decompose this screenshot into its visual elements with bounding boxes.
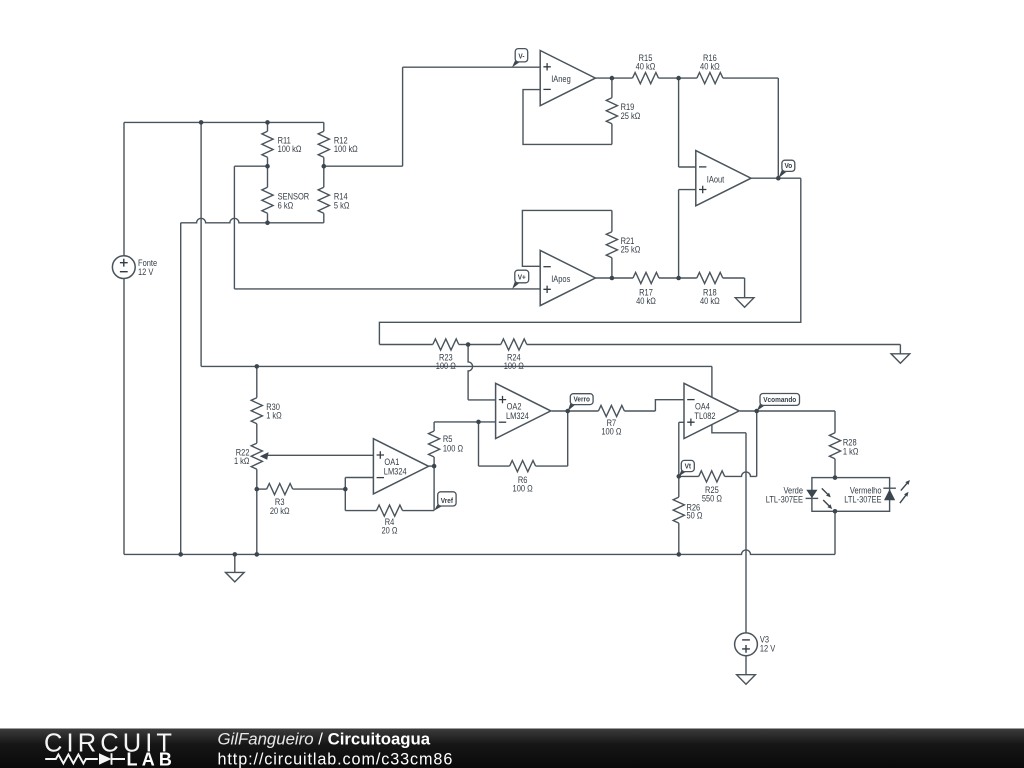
svg-text:1 kΩ: 1 kΩ — [843, 447, 859, 457]
svg-text:100 Ω: 100 Ω — [601, 427, 621, 437]
svg-text:Vt: Vt — [685, 463, 692, 471]
svg-text:12 V: 12 V — [760, 644, 776, 654]
svg-text:40 kΩ: 40 kΩ — [700, 296, 720, 306]
svg-text:LTL-307EE: LTL-307EE — [766, 495, 804, 505]
svg-text:100 kΩ: 100 kΩ — [278, 145, 302, 155]
svg-text:LM324: LM324 — [506, 411, 529, 421]
svg-text:LTL-307EE: LTL-307EE — [844, 495, 882, 505]
svg-text:OA4: OA4 — [695, 402, 710, 412]
svg-text:LAB: LAB — [127, 750, 177, 768]
svg-text:OA1: OA1 — [384, 457, 399, 467]
svg-text:1 kΩ: 1 kΩ — [266, 411, 282, 421]
svg-text:V-: V- — [518, 53, 525, 61]
svg-text:IApos: IApos — [551, 275, 570, 285]
svg-text:Verro: Verro — [573, 396, 590, 404]
svg-text:IAneg: IAneg — [551, 75, 571, 85]
svg-text:http://circuitlab.com/c33cm86: http://circuitlab.com/c33cm86 — [218, 750, 454, 768]
svg-text:25 kΩ: 25 kΩ — [621, 245, 641, 255]
svg-text:LM324: LM324 — [384, 467, 407, 477]
svg-text:40 kΩ: 40 kΩ — [700, 62, 720, 72]
svg-text:V+: V+ — [518, 274, 526, 282]
svg-text:Vcomando: Vcomando — [763, 397, 797, 405]
svg-text:100 Ω: 100 Ω — [436, 361, 456, 371]
svg-text:20 kΩ: 20 kΩ — [270, 506, 290, 516]
svg-text:100 Ω: 100 Ω — [513, 484, 533, 494]
svg-text:100 Ω: 100 Ω — [443, 444, 463, 454]
svg-text:IAout: IAout — [707, 175, 725, 185]
svg-text:Vo: Vo — [784, 163, 792, 171]
svg-text:12 V: 12 V — [138, 268, 154, 278]
svg-text:TL082: TL082 — [694, 411, 716, 421]
svg-text:GilFangueiro / Circuitoagua: GilFangueiro / Circuitoagua — [218, 730, 431, 749]
svg-text:OA2: OA2 — [507, 402, 522, 412]
svg-text:550 Ω: 550 Ω — [702, 494, 722, 504]
svg-text:50 Ω: 50 Ω — [687, 511, 703, 521]
svg-text:1 kΩ: 1 kΩ — [234, 456, 250, 466]
svg-text:25 kΩ: 25 kΩ — [621, 111, 641, 121]
svg-text:5 kΩ: 5 kΩ — [334, 201, 350, 211]
svg-text:Vref: Vref — [441, 497, 454, 505]
svg-text:40 kΩ: 40 kΩ — [636, 62, 656, 72]
svg-text:20 Ω: 20 Ω — [382, 526, 398, 536]
svg-text:100 kΩ: 100 kΩ — [334, 145, 358, 155]
svg-text:6 kΩ: 6 kΩ — [278, 201, 294, 211]
svg-text:R5: R5 — [443, 434, 453, 444]
svg-text:40 kΩ: 40 kΩ — [636, 296, 656, 306]
svg-text:100 Ω: 100 Ω — [504, 361, 524, 371]
